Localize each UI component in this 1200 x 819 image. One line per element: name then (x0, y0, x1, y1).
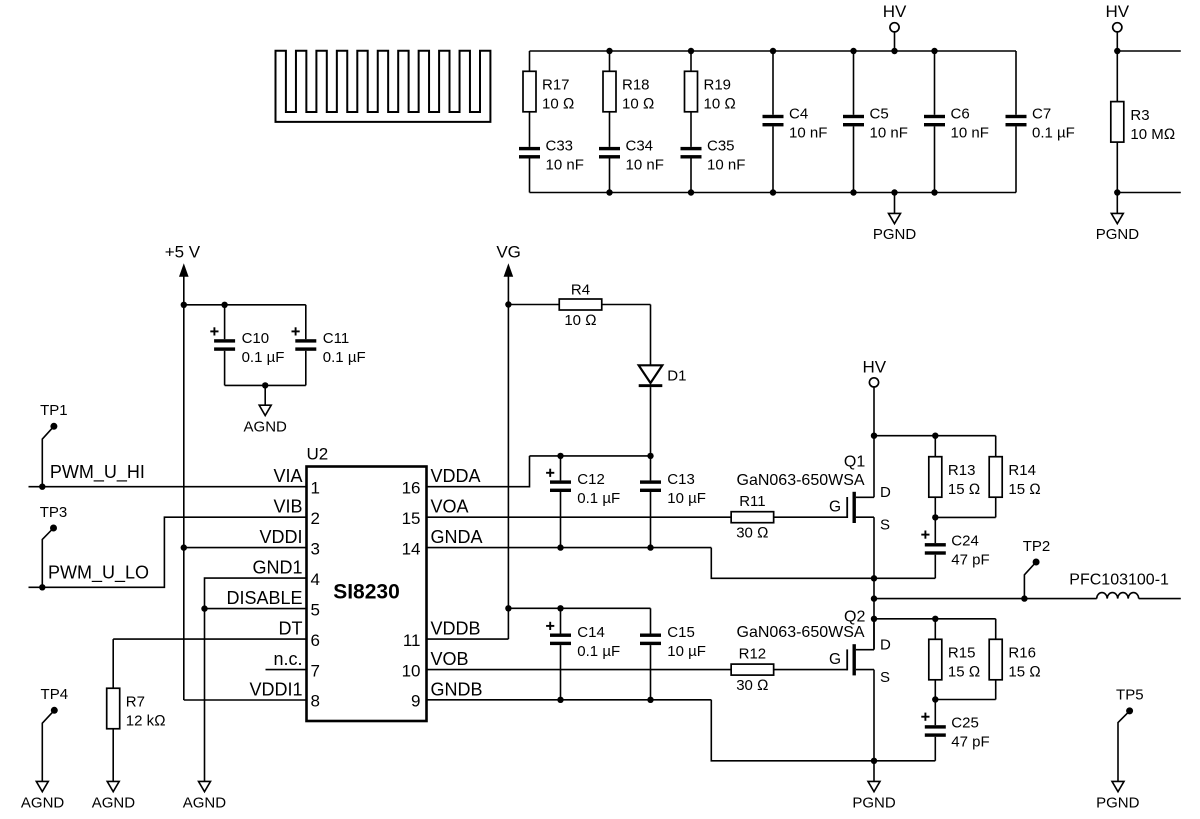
svg-text:15: 15 (402, 509, 421, 528)
junction (39, 484, 45, 490)
svg-text:C10: C10 (242, 330, 270, 347)
svg-text:R16: R16 (1008, 644, 1036, 661)
resistor R18 (603, 51, 654, 113)
svg-text:7: 7 (311, 661, 320, 680)
svg-text:PWM_U_LO: PWM_U_LO (48, 563, 149, 584)
junction (871, 575, 877, 581)
ground PGND (1096, 781, 1140, 811)
svg-text:TP4: TP4 (41, 686, 69, 703)
junction (181, 302, 187, 308)
svg-text:10: 10 (402, 661, 421, 680)
svg-text:R12: R12 (739, 646, 767, 663)
wire (29, 517, 307, 587)
svg-text:4: 4 (311, 570, 320, 589)
label GaN063-650WSA (737, 472, 865, 489)
svg-text:C11: C11 (323, 330, 349, 347)
svg-text:10 nF: 10 nF (870, 125, 908, 142)
junction (39, 584, 45, 590)
svg-text:Q1: Q1 (844, 454, 865, 471)
resistor R13 (929, 436, 980, 518)
svg-text:GNDA: GNDA (431, 527, 483, 547)
capacitor C12 (546, 456, 620, 548)
svg-text:8: 8 (311, 692, 320, 711)
junction (557, 453, 563, 459)
svg-text:9: 9 (411, 692, 420, 711)
diode D1 (639, 365, 687, 387)
svg-text:C5: C5 (870, 106, 889, 123)
wire (874, 618, 996, 620)
svg-text:30 Ω: 30 Ω (736, 524, 768, 541)
svg-text:R14: R14 (1008, 462, 1036, 479)
ground AGND (244, 385, 288, 435)
junction (850, 189, 856, 195)
svg-text:VG: VG (496, 242, 521, 261)
capacitor C5 (843, 51, 908, 193)
svg-text:DISABLE: DISABLE (226, 588, 302, 608)
svg-text:C33: C33 (546, 138, 574, 155)
wire (873, 578, 875, 649)
svg-text:GaN063-650WSA: GaN063-650WSA (737, 472, 865, 489)
svg-text:PFC103100-1: PFC103100-1 (1069, 572, 1169, 589)
junction (932, 433, 938, 439)
svg-text:Q2: Q2 (844, 608, 865, 625)
svg-text:PGND: PGND (852, 795, 896, 812)
junction (932, 616, 938, 622)
svg-text:10 MΩ: 10 MΩ (1130, 126, 1175, 143)
test point TP1 (40, 402, 68, 487)
resistor R14 (989, 436, 1041, 518)
junction (557, 697, 563, 703)
svg-text:16: 16 (402, 478, 421, 497)
junction (688, 48, 694, 54)
HV terminal (862, 357, 886, 435)
svg-text:VDDA: VDDA (431, 466, 481, 486)
wire (650, 305, 652, 366)
wire (427, 699, 712, 701)
wire (427, 547, 712, 549)
wire (29, 486, 307, 488)
svg-text:C34: C34 (626, 138, 654, 155)
junction (557, 605, 563, 611)
resistor R16 (989, 619, 1041, 700)
ground AGND (21, 781, 65, 811)
svg-text:C15: C15 (667, 624, 695, 641)
svg-text:D: D (880, 636, 891, 653)
svg-text:G: G (829, 651, 841, 668)
junction (647, 453, 653, 459)
svg-text:C6: C6 (951, 106, 970, 123)
svg-text:11: 11 (403, 631, 421, 650)
junction (1114, 189, 1120, 195)
transistor Q2 (829, 608, 891, 761)
svg-text:C25: C25 (951, 715, 979, 732)
svg-text:10 nF: 10 nF (626, 157, 664, 174)
capacitor C34 (599, 112, 664, 193)
svg-text:10 µF: 10 µF (667, 643, 706, 660)
svg-text:15 Ω: 15 Ω (1008, 663, 1040, 680)
wire (935, 516, 995, 518)
wire (184, 699, 307, 701)
junction (931, 189, 937, 195)
svg-text:AGND: AGND (183, 795, 227, 812)
svg-text:3: 3 (311, 539, 320, 558)
node PWM_U_HI (50, 462, 145, 483)
svg-text:G: G (829, 498, 841, 515)
wire (530, 50, 1017, 52)
wire (427, 456, 530, 487)
svg-text:VOA: VOA (431, 497, 469, 517)
svg-text:R18: R18 (622, 77, 650, 94)
svg-text:R15: R15 (948, 644, 976, 661)
junction (871, 758, 877, 764)
junction (871, 595, 877, 601)
svg-text:D: D (880, 484, 891, 501)
junction (850, 48, 856, 54)
svg-text:GNDB: GNDB (431, 679, 483, 699)
wire (711, 548, 935, 579)
resistor R3 (1111, 51, 1175, 193)
ground PGND (852, 761, 896, 812)
svg-text:VIB: VIB (273, 497, 302, 517)
svg-text:C13: C13 (667, 471, 695, 488)
svg-text:0.1 µF: 0.1 µF (577, 490, 620, 507)
junction (1021, 595, 1027, 601)
svg-text:0.1 µF: 0.1 µF (323, 349, 366, 366)
svg-text:TP2: TP2 (1023, 538, 1051, 555)
svg-text:D1: D1 (667, 367, 686, 384)
junction (871, 433, 877, 439)
svg-text:47 pF: 47 pF (951, 551, 989, 568)
svg-text:VDDI: VDDI (259, 527, 302, 547)
ground AGND (183, 781, 227, 811)
wire (508, 607, 650, 609)
svg-text:1: 1 (311, 478, 320, 497)
capacitor C25 (921, 700, 989, 761)
ground AGND (92, 781, 136, 811)
svg-text:+5 V: +5 V (165, 242, 201, 261)
junction (181, 544, 187, 550)
svg-text:AGND: AGND (244, 419, 288, 436)
capacitor C7 (1006, 51, 1075, 193)
junction (932, 696, 938, 702)
svg-text:R17: R17 (542, 77, 570, 94)
op-amp U2 gate driver SI8230 (307, 444, 427, 721)
wire (184, 304, 306, 306)
svg-text:10 nF: 10 nF (707, 157, 745, 174)
wire (1117, 50, 1181, 52)
resistor R15 (929, 619, 980, 700)
svg-text:AGND: AGND (21, 795, 65, 812)
wire (184, 547, 307, 549)
wire (1117, 192, 1181, 194)
junction (871, 616, 877, 622)
svg-text:R3: R3 (1130, 107, 1149, 124)
svg-text:n.c.: n.c. (273, 649, 302, 669)
junction (606, 189, 612, 195)
wire (874, 598, 1097, 600)
svg-text:AGND: AGND (92, 795, 136, 812)
svg-text:VIA: VIA (273, 466, 302, 486)
junction (262, 382, 268, 388)
svg-text:GND1: GND1 (252, 557, 302, 577)
svg-text:C24: C24 (951, 532, 979, 549)
junction (557, 544, 563, 550)
resistor R7 (107, 639, 166, 781)
wire (530, 455, 651, 457)
label GaN063-650WSA (737, 624, 865, 641)
resistor R11 (427, 493, 848, 541)
HV terminal (1105, 2, 1129, 51)
svg-text:TP5: TP5 (1116, 687, 1144, 704)
capacitor C14 (546, 608, 620, 700)
svg-text:10 Ω: 10 Ω (542, 96, 574, 113)
inductor PFC103100-1 (1069, 572, 1181, 599)
junction (505, 301, 511, 307)
wire (205, 608, 307, 610)
svg-text:C14: C14 (577, 624, 605, 641)
wire (711, 700, 935, 761)
svg-text:VDDB: VDDB (431, 618, 481, 638)
svg-text:U2: U2 (307, 444, 329, 463)
junction (770, 48, 776, 54)
svg-text:R19: R19 (704, 77, 732, 94)
svg-text:5: 5 (311, 600, 320, 619)
svg-text:S: S (880, 669, 890, 686)
wire (205, 578, 307, 781)
svg-text:VDDI1: VDDI1 (249, 679, 302, 699)
junction (221, 302, 227, 308)
junction (891, 189, 897, 195)
capacitor C13 (640, 456, 706, 548)
capacitor C10 (210, 305, 284, 386)
ground PGND (873, 193, 917, 243)
svg-text:10 Ω: 10 Ω (622, 96, 654, 113)
wire (225, 384, 306, 386)
junction (932, 514, 938, 520)
junction (931, 48, 937, 54)
resistor R4 (508, 282, 650, 329)
svg-text:C12: C12 (577, 471, 605, 488)
svg-text:S: S (880, 517, 890, 534)
node PWM_U_LO (48, 563, 149, 584)
svg-text:C7: C7 (1032, 106, 1051, 123)
svg-text:PGND: PGND (873, 226, 917, 243)
pin labels U2 (226, 466, 482, 711)
HV terminal (883, 2, 907, 51)
wire (113, 638, 306, 640)
pin 7 n.c. stub (266, 669, 307, 671)
svg-text:HV: HV (1105, 2, 1129, 21)
svg-text:R13: R13 (948, 462, 976, 479)
capacitor C11 (292, 305, 366, 386)
svg-text:47 pF: 47 pF (951, 734, 989, 751)
svg-text:15 Ω: 15 Ω (1008, 481, 1040, 498)
svg-text:2: 2 (311, 509, 320, 528)
test point TP5 (1116, 687, 1144, 782)
svg-text:DT: DT (279, 618, 303, 638)
wire (874, 435, 996, 437)
svg-text:0.1 µF: 0.1 µF (577, 643, 620, 660)
svg-text:10 Ω: 10 Ω (564, 312, 596, 329)
junction (1114, 48, 1120, 54)
svg-text:PGND: PGND (1096, 795, 1140, 812)
junction (201, 605, 207, 611)
svg-text:10 nF: 10 nF (546, 157, 584, 174)
svg-text:30 Ω: 30 Ω (736, 677, 768, 694)
svg-text:R11: R11 (739, 493, 765, 510)
svg-text:VOB: VOB (431, 649, 469, 669)
svg-text:HV: HV (883, 2, 907, 21)
wire (935, 699, 995, 701)
junction (647, 544, 653, 550)
svg-text:C4: C4 (789, 106, 808, 123)
junction (891, 48, 897, 54)
test point TP2 (1023, 538, 1051, 599)
svg-text:15 Ω: 15 Ω (948, 663, 980, 680)
capacitor C4 (763, 51, 828, 193)
junction (688, 189, 694, 195)
svg-text:10 nF: 10 nF (951, 125, 989, 142)
test point TP3 (40, 504, 68, 587)
svg-text:10 µF: 10 µF (667, 490, 706, 507)
svg-text:10 nF: 10 nF (789, 125, 827, 142)
junction (606, 48, 612, 54)
ground PGND (1096, 193, 1140, 243)
svg-text:PWM_U_HI: PWM_U_HI (50, 462, 145, 483)
resistor R19 (685, 51, 736, 113)
svg-text:SI8230: SI8230 (333, 581, 400, 604)
capacitor C15 (640, 608, 706, 700)
test point TP4 (41, 686, 69, 781)
capacitor C35 (681, 112, 746, 193)
svg-text:GaN063-650WSA: GaN063-650WSA (737, 624, 865, 641)
svg-text:R7: R7 (126, 694, 145, 711)
svg-text:15 Ω: 15 Ω (948, 481, 980, 498)
capacitor C24 (921, 517, 989, 578)
svg-text:10 Ω: 10 Ω (704, 96, 736, 113)
junction (647, 697, 653, 703)
svg-text:PGND: PGND (1096, 226, 1140, 243)
svg-text:R4: R4 (571, 282, 590, 299)
svg-text:14: 14 (402, 539, 421, 558)
svg-text:TP3: TP3 (40, 504, 68, 521)
svg-text:12 kΩ: 12 kΩ (126, 713, 166, 730)
resistor R12 (427, 646, 848, 694)
capacitor C6 (924, 51, 989, 193)
heatsink (276, 51, 491, 122)
svg-text:6: 6 (311, 631, 320, 650)
wire (650, 387, 652, 456)
svg-text:0.1 µF: 0.1 µF (1032, 125, 1075, 142)
junction (770, 189, 776, 195)
resistor R17 (523, 51, 574, 113)
svg-text:HV: HV (862, 357, 886, 376)
transistor Q1 (829, 436, 891, 579)
+5 V supply (165, 242, 201, 700)
junction (505, 605, 511, 611)
svg-text:TP1: TP1 (40, 402, 68, 419)
wire (427, 638, 509, 640)
svg-text:0.1 µF: 0.1 µF (242, 349, 285, 366)
capacitor C33 (519, 112, 584, 193)
VG supply (496, 242, 521, 639)
svg-text:C35: C35 (707, 138, 735, 155)
wire (530, 192, 1017, 194)
